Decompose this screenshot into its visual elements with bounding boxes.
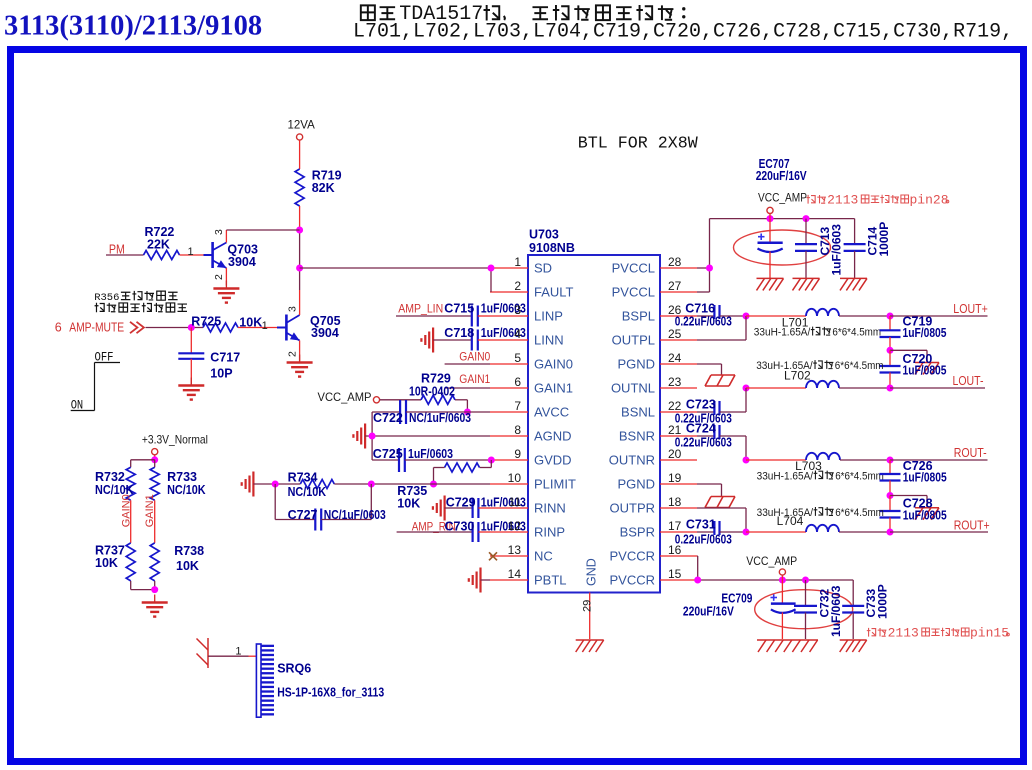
wire C718 — [433, 339, 472, 341]
wire AGND — [365, 435, 490, 437]
pin 1 SD — [490, 255, 552, 276]
wire PVCCL net — [697, 219, 855, 292]
svg-text:25: 25 — [668, 327, 682, 341]
svg-text:2113: 2113 — [888, 626, 919, 641]
svg-text:OUTPL: OUTPL — [612, 333, 655, 348]
power ground pin19 — [705, 497, 735, 508]
ground Q703 — [213, 281, 239, 303]
svg-text:1: 1 — [188, 246, 194, 258]
pin 9 GVDD — [490, 447, 572, 468]
note line 1 — [361, 3, 686, 26]
svg-text:pin28: pin28 — [910, 193, 949, 208]
resistor R734 — [253, 471, 371, 500]
capacitor C729 — [445, 496, 526, 519]
svg-text:NC/10K: NC/10K — [167, 483, 206, 497]
power terminal 12VA — [288, 120, 316, 170]
chassis ground LOUT mid — [915, 363, 939, 375]
svg-text:1uF/0805: 1uF/0805 — [903, 326, 947, 340]
svg-text:U703: U703 — [529, 228, 559, 242]
wire PGND pin24 — [697, 364, 722, 375]
wire mid node L — [890, 350, 927, 362]
net label GAIN0 vertical — [121, 494, 133, 527]
pin 8 AGND — [490, 423, 572, 444]
svg-text:L701,L702,L703,L704,C719,C720,: L701,L702,L703,L704,C719,C720,C726,C728,… — [353, 21, 1013, 44]
svg-text:PVCCL: PVCCL — [612, 261, 655, 276]
svg-text:3113(3110)/2113/9108: 3113(3110)/2113/9108 — [4, 11, 262, 42]
svg-text:1uF/0805: 1uF/0805 — [903, 508, 947, 522]
svg-text:ROUT-: ROUT- — [954, 446, 987, 460]
svg-text:10K: 10K — [397, 497, 420, 511]
junction — [803, 215, 810, 222]
pin 14 PBTL — [490, 567, 567, 588]
svg-text:1: 1 — [262, 320, 268, 332]
pin 11 RINN — [490, 495, 566, 516]
svg-text:18: 18 — [668, 495, 682, 509]
svg-text:NC: NC — [534, 549, 553, 564]
svg-text:BSNR: BSNR — [619, 429, 655, 444]
wire GAIN0 — [445, 363, 490, 365]
svg-text:GVDD: GVDD — [534, 453, 572, 468]
svg-text:R729: R729 — [421, 372, 451, 386]
wire SD/FAULT net — [300, 268, 491, 292]
svg-text:C727: C727 — [288, 508, 318, 522]
svg-text:C731: C731 — [686, 517, 716, 531]
junction — [151, 456, 158, 463]
svg-text:R733: R733 — [167, 470, 197, 484]
svg-text:15: 15 — [668, 567, 682, 581]
svg-text:1uF/0805: 1uF/0805 — [903, 364, 947, 378]
svg-text:12: 12 — [508, 519, 522, 533]
svg-text:C723: C723 — [686, 397, 716, 411]
net label GAIN1 vertical — [144, 494, 156, 527]
junction — [368, 481, 375, 488]
transistor Q703 — [204, 229, 259, 286]
junction — [369, 433, 376, 440]
junction — [464, 409, 471, 416]
junction — [488, 265, 495, 272]
svg-text:PGND: PGND — [617, 477, 655, 492]
svg-text:6*6*4.5mm: 6*6*4.5mm — [832, 327, 881, 339]
wire 12VA rail — [299, 206, 301, 290]
no-connect X pin13 — [489, 552, 497, 560]
ground C718 — [421, 328, 433, 353]
svg-text:9: 9 — [514, 447, 521, 461]
svg-text:2: 2 — [213, 274, 225, 280]
inductor L704 — [746, 525, 890, 532]
wire PGND pin19 — [697, 484, 722, 496]
svg-text:LOUT+: LOUT+ — [953, 302, 988, 316]
label L702 value — [756, 360, 883, 383]
net label AMP_RIN — [412, 520, 456, 534]
svg-text:4: 4 — [514, 327, 521, 341]
svg-text:1uF/0603: 1uF/0603 — [829, 585, 843, 637]
chassis ground C714 — [840, 278, 867, 290]
svg-text:GAIN0: GAIN0 — [459, 350, 490, 364]
pin 29 GND stub — [582, 593, 594, 640]
svg-text:1000P: 1000P — [877, 222, 891, 257]
svg-text:5: 5 — [514, 351, 521, 365]
svg-text:6*6*4.5mm: 6*6*4.5mm — [835, 470, 884, 482]
pin 21 BSNR — [619, 423, 697, 444]
svg-text:3904: 3904 — [228, 255, 256, 269]
title — [4, 11, 262, 42]
capacitor C715 — [444, 302, 526, 327]
pin number overlay — [508, 303, 522, 533]
wire LOUT+ — [890, 315, 988, 317]
svg-text:6: 6 — [55, 321, 62, 335]
power ground pin24 — [705, 375, 735, 386]
junction — [694, 577, 701, 584]
svg-text:C725: C725 — [373, 447, 403, 461]
wire AGND branch — [371, 412, 373, 460]
power terminal VCC_AMP top — [758, 191, 807, 219]
pin 15 PVCCR — [609, 567, 697, 588]
chassis ground C713 — [793, 278, 820, 290]
svg-text:9108NB: 9108NB — [529, 241, 575, 255]
junction — [188, 324, 195, 331]
ground R734 — [242, 472, 254, 497]
pin 2 FAULT — [490, 279, 574, 300]
svg-text:3904: 3904 — [311, 326, 339, 340]
net label GAIN0 — [459, 350, 490, 364]
capacitor C720 — [880, 350, 947, 388]
capacitor C719 — [880, 315, 947, 351]
svg-text:R725: R725 — [191, 315, 221, 329]
junction — [743, 529, 750, 536]
svg-text:PBTL: PBTL — [534, 573, 567, 588]
inductor L702 — [746, 381, 890, 388]
wire GAIN1 — [445, 387, 490, 389]
chassis ground EC707 — [757, 278, 784, 290]
wire SRQ6 pin1 — [208, 646, 256, 658]
power terminal VCC_AMP left — [318, 390, 380, 404]
pin 7 AVCC — [490, 399, 569, 420]
wire OUTPL to node — [697, 316, 746, 340]
capacitor C723 — [675, 388, 746, 425]
svg-text:R738: R738 — [174, 544, 204, 558]
resistor R737 — [95, 543, 135, 581]
transistor Q705 — [277, 290, 341, 361]
svg-text:AMP_LIN: AMP_LIN — [398, 302, 443, 316]
pin 3 LINP — [490, 303, 563, 324]
junction — [887, 313, 894, 320]
svg-text:C724: C724 — [686, 421, 716, 435]
wire OUTPR to node — [697, 508, 746, 532]
wire PM — [106, 254, 144, 256]
svg-text:24: 24 — [668, 351, 682, 365]
junction — [743, 313, 750, 320]
svg-text:1uF/0805: 1uF/0805 — [903, 471, 947, 485]
svg-text:1: 1 — [514, 255, 521, 269]
pin 28 PVCCL — [612, 255, 697, 276]
capacitor C713 — [795, 219, 844, 278]
capacitor EC707 electrolytic — [734, 157, 831, 278]
capacitor C727 — [275, 484, 386, 531]
svg-text:0.22uF/0603: 0.22uF/0603 — [675, 314, 732, 328]
svg-text:C715: C715 — [444, 302, 474, 316]
capacitor C722 — [372, 400, 490, 425]
pin 26 BSPL — [622, 303, 697, 324]
svg-text:OUTNL: OUTNL — [611, 381, 655, 396]
pin 18 OUTPR — [610, 495, 698, 516]
ground C717 — [178, 378, 204, 400]
chassis ground SRQ6 — [197, 638, 209, 668]
svg-text:LINN: LINN — [534, 333, 564, 348]
svg-text:2113: 2113 — [827, 193, 858, 208]
svg-text:PVCCR: PVCCR — [609, 549, 655, 564]
svg-text:C718: C718 — [444, 326, 474, 340]
svg-text:LOUT-: LOUT- — [953, 374, 984, 388]
svg-text:AVCC: AVCC — [534, 405, 569, 420]
ground divider — [142, 595, 168, 617]
junction — [743, 385, 750, 392]
svg-text:2: 2 — [287, 351, 299, 357]
pin 23 OUTNL — [611, 375, 697, 396]
svg-text:12VA: 12VA — [288, 120, 316, 132]
net label PM — [109, 243, 125, 257]
wire ROUT- — [890, 459, 988, 461]
capacitor C732 — [794, 580, 843, 639]
svg-text:OUTNR: OUTNR — [609, 453, 655, 468]
ground Q705 — [287, 355, 313, 377]
wire Q703 collector — [226, 229, 299, 231]
capacitor C733 — [842, 580, 889, 639]
svg-text:82K: 82K — [312, 181, 335, 195]
svg-text:OUTPR: OUTPR — [610, 501, 656, 516]
junction — [743, 457, 750, 464]
svg-text:C730: C730 — [445, 520, 475, 534]
IC U703 9108NB body — [528, 228, 660, 593]
svg-text:SD: SD — [534, 261, 552, 276]
svg-text:BSNL: BSNL — [621, 405, 655, 420]
wire ROUT+ — [890, 531, 988, 533]
power terminal +3.3V_Normal — [142, 433, 208, 460]
svg-text:2: 2 — [514, 279, 521, 293]
svg-text:VCC_AMP: VCC_AMP — [318, 390, 372, 404]
svg-text:8: 8 — [514, 423, 521, 437]
svg-text:33uH-1.65A/: 33uH-1.65A/ — [757, 470, 814, 482]
svg-text:PVCCL: PVCCL — [612, 285, 655, 300]
svg-text:RINN: RINN — [534, 501, 566, 516]
chassis ground pin29 — [576, 640, 604, 652]
svg-text:L704: L704 — [777, 514, 804, 528]
chassis ground C733 — [840, 640, 867, 652]
svg-text:EC709: EC709 — [721, 592, 752, 606]
wire R722 to Q703 base — [180, 246, 212, 258]
junction — [887, 457, 894, 464]
svg-text:19: 19 — [668, 471, 682, 485]
svg-text:11: 11 — [509, 495, 522, 509]
net label ROUT+ — [954, 519, 990, 533]
junction — [887, 529, 894, 536]
svg-text:28: 28 — [668, 255, 682, 269]
inductor L701 — [746, 309, 890, 330]
wire AMP-MUTE — [146, 327, 204, 329]
junction — [779, 577, 786, 584]
svg-text:C729: C729 — [446, 496, 476, 510]
net label LOUT- — [953, 374, 984, 388]
svg-text:10K: 10K — [95, 556, 118, 570]
svg-text:GAIN1: GAIN1 — [459, 372, 490, 386]
svg-text:27: 27 — [668, 279, 682, 293]
capacitor EC709 electrolytic — [683, 580, 853, 639]
annotation near pin15 — [867, 626, 1009, 641]
svg-text:NC/10K: NC/10K — [288, 485, 327, 499]
svg-text:HS-1P-16X8_for_3113: HS-1P-16X8_for_3113 — [277, 686, 384, 700]
net label AMP_LIN — [398, 302, 443, 316]
junction — [887, 492, 894, 499]
junction — [706, 265, 713, 272]
svg-text:3: 3 — [287, 306, 299, 312]
svg-text:14: 14 — [508, 567, 522, 581]
pin 6 GAIN1 — [490, 375, 573, 396]
wire R725 to Q705 base — [238, 320, 285, 332]
svg-text:NC/1uF/0603: NC/1uF/0603 — [409, 411, 471, 425]
svg-text:PVCCR: PVCCR — [609, 573, 655, 588]
svg-text:ROUT+: ROUT+ — [954, 519, 990, 533]
junction — [272, 481, 279, 488]
svg-text:+3.3V_Normal: +3.3V_Normal — [142, 433, 208, 447]
label L704 value — [757, 507, 884, 528]
net label ROUT- — [954, 446, 987, 460]
capacitor C717 — [178, 328, 240, 385]
pin 5 GAIN0 — [490, 351, 573, 372]
resistor R733 — [150, 467, 205, 500]
pin 10 PLIMIT — [490, 471, 576, 492]
junction — [488, 457, 495, 464]
svg-text:0.22uF/0603: 0.22uF/0603 — [675, 532, 732, 546]
junction — [802, 577, 809, 584]
junction — [887, 347, 894, 354]
wire mid node R — [890, 496, 927, 508]
pin 25 OUTPL — [612, 327, 697, 348]
note line 2 — [353, 21, 1013, 44]
resistor R738 — [150, 543, 204, 581]
pin 22 BSNL — [621, 399, 697, 420]
inductor L703 — [746, 453, 890, 473]
svg-text:3: 3 — [213, 229, 225, 235]
capacitor C714 — [844, 219, 891, 278]
junction — [296, 227, 303, 234]
annotation R356 — [94, 291, 187, 312]
svg-text:29: 29 — [582, 600, 594, 612]
capacitor C716 — [675, 301, 746, 328]
wire PLIMIT — [371, 483, 490, 485]
svg-text:1000P: 1000P — [876, 584, 890, 619]
svg-text:NC/1uF/0603: NC/1uF/0603 — [324, 508, 386, 522]
junction — [767, 215, 774, 222]
svg-text:AMP-MUTE: AMP-MUTE — [69, 320, 124, 335]
capacitor C724 — [675, 421, 746, 460]
pin 19 PGND — [617, 471, 697, 492]
svg-text:23: 23 — [668, 375, 682, 389]
capacitor C725 — [372, 447, 490, 472]
svg-text:C716: C716 — [685, 301, 715, 315]
net label LOUT+ — [953, 302, 988, 316]
junction — [296, 265, 303, 272]
svg-text:RINP: RINP — [534, 525, 565, 540]
svg-text:17: 17 — [668, 519, 682, 533]
resistor R735 — [397, 460, 491, 511]
svg-text:FAULT: FAULT — [534, 285, 574, 300]
chassis ground ROUT mid — [915, 508, 939, 520]
wire LOUT- — [890, 387, 985, 389]
power terminal VCC_AMP bottom — [746, 554, 797, 580]
svg-text:6*6*4.5mm: 6*6*4.5mm — [835, 360, 884, 372]
svg-text:PGND: PGND — [617, 357, 655, 372]
text BTL FOR 2X8W — [578, 134, 698, 153]
wire AMP_LIN — [396, 315, 472, 317]
svg-text:C722: C722 — [373, 411, 403, 425]
capacitor C726 — [880, 459, 947, 496]
pin 17 BSPR — [620, 519, 697, 540]
chassis ground EC709 C732 — [757, 640, 818, 652]
svg-text:VCC_AMP: VCC_AMP — [746, 554, 797, 568]
svg-text:220uF/16V: 220uF/16V — [683, 605, 735, 619]
svg-text:7: 7 — [514, 399, 521, 413]
svg-text:GND: GND — [585, 558, 599, 586]
junction — [151, 586, 158, 593]
svg-text:R732: R732 — [95, 470, 125, 484]
junction — [887, 385, 894, 392]
svg-text:BSPL: BSPL — [622, 309, 655, 324]
svg-text:SRQ6: SRQ6 — [277, 662, 311, 676]
svg-text:GAIN1: GAIN1 — [534, 381, 573, 396]
svg-text:10K: 10K — [176, 559, 199, 573]
wire PVCCR net — [697, 556, 853, 580]
svg-text:L702: L702 — [784, 369, 811, 383]
svg-text:ON: ON — [71, 399, 84, 413]
svg-text:33uH-1.65A/: 33uH-1.65A/ — [754, 327, 811, 339]
svg-text:220uF/16V: 220uF/16V — [756, 169, 808, 183]
pin 4 LINN — [490, 327, 564, 348]
svg-text:3: 3 — [514, 303, 521, 317]
pin 27 PVCCL — [612, 279, 697, 300]
wire PBTL — [481, 579, 491, 581]
annotation near pin28 — [806, 193, 948, 208]
svg-text:R356: R356 — [94, 292, 119, 304]
net label AMP-MUTE — [55, 320, 144, 335]
svg-text:GAIN0: GAIN0 — [534, 357, 573, 372]
svg-text:pin15: pin15 — [970, 626, 1009, 641]
pin 24 PGND — [617, 351, 697, 372]
svg-text:1uF/0603: 1uF/0603 — [830, 224, 844, 276]
resistor R732 — [95, 467, 135, 500]
svg-text:6: 6 — [514, 375, 521, 389]
capacitor C728 — [880, 496, 947, 533]
svg-text:C717: C717 — [210, 351, 240, 365]
resistor R729 — [380, 372, 468, 413]
svg-text:AGND: AGND — [534, 429, 572, 444]
connector SRQ6 — [256, 644, 384, 717]
pin 20 OUTNR — [609, 447, 697, 468]
label L701 value — [754, 327, 881, 339]
switch OFF/ON mark — [71, 351, 120, 413]
svg-text:10: 10 — [508, 471, 522, 485]
wire divider bottom — [131, 581, 155, 590]
svg-text:0.22uF/0603: 0.22uF/0603 — [675, 435, 732, 449]
svg-text:PLIMIT: PLIMIT — [534, 477, 576, 492]
svg-text:VCC_AMP: VCC_AMP — [758, 191, 807, 205]
label L703 value — [757, 470, 884, 482]
svg-text:BSPR: BSPR — [620, 525, 655, 540]
pin 13 NC — [490, 543, 553, 564]
ground AGND — [353, 424, 365, 449]
svg-text:1: 1 — [235, 646, 241, 658]
junction — [430, 481, 437, 488]
svg-text:BTL FOR 2X8W: BTL FOR 2X8W — [578, 134, 698, 153]
resistor R719 — [295, 169, 342, 206]
